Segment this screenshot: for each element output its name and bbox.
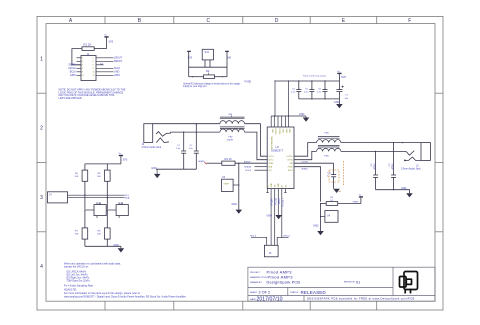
svg-text:www.analog.com/SSM2377 - Digit: www.analog.com/SSM2377 - Digital Input C… [64,295,186,298]
svg-text:DATE: DATE [250,298,256,301]
svg-text:GPIO: GPIO [70,74,76,77]
resistor R2 [204,69,215,79]
svg-text:AGND: AGND [244,161,251,164]
IC U4 [321,211,339,223]
jumper U1 [202,49,213,60]
svg-text:OUTR-: OUTR- [287,160,293,162]
svg-text:MCLK: MCLK [270,199,274,206]
ground [267,214,282,220]
svg-text:LRCLK: LRCLK [280,199,284,208]
border frame [37,16,443,310]
svg-text:SDATA: SDATA [244,166,252,169]
junction dots [298,80,325,99]
wire R4 left [321,203,327,205]
J1 left net labels [68,64,76,78]
svg-text:SCL: SCL [268,170,272,172]
svg-text:R3 1K: R3 1K [225,157,232,161]
wire SDATA [255,166,268,168]
svg-text:SJ1: SJ1 [205,50,210,54]
J1 pin numbers [82,58,95,78]
ground [299,113,309,122]
svg-text:VDD: VDD [288,129,290,134]
svg-text:LRCLK: LRCLK [283,235,291,237]
svg-text:AGND: AGND [302,168,309,171]
svg-text:01: 01 [356,280,360,284]
grid letters top [69,18,411,24]
svg-text:BCLK: BCLK [273,199,277,206]
svg-text:2: 2 [93,58,94,60]
svg-text:1000R: 1000R [227,139,234,141]
svg-text:GND: GND [277,199,281,205]
capacitor C6 [323,81,328,99]
svg-text:GND: GND [151,167,157,170]
op-amp U2 SSM2377 [267,127,294,189]
IC U6 [107,202,128,218]
svg-text:GND: GND [299,113,305,116]
pin header J5 [264,245,278,256]
svg-text:Vcc: Vcc [337,71,340,73]
wire supply rail [275,80,340,82]
U2 pin numbers bottom [267,183,287,188]
svg-text:DesignSpark PCB: DesignSpark PCB [267,281,301,285]
svg-text:PROJECT: PROJECT [250,272,261,274]
svg-text:10: 10 [93,72,95,74]
svg-text:1: 1 [82,58,83,60]
svg-text:SDA: SDA [125,197,130,200]
wire [189,51,227,76]
svg-text:7: 7 [82,68,83,70]
svg-text:DESIGNSPARK PCB available for: DESIGNSPARK PCB available for FREE at ww… [307,296,415,300]
svg-text:BCLK: BCLK [288,170,294,172]
wire to gnd [320,204,322,232]
svg-text:PVDD: PVDD [288,167,294,169]
svg-text:220pF: 220pF [390,164,392,171]
svg-text:3V3: 3V3 [123,157,128,161]
svg-text:GPIO: GPIO [114,74,120,77]
svg-text:3V3: 3V3 [108,40,113,44]
wire gnd rail [299,98,340,100]
resistor R5 [75,170,88,181]
svg-text:R1 1K: R1 1K [84,43,92,47]
svg-text:VREF: VREF [268,163,274,165]
svg-text:2: 2 [40,126,43,132]
wire header right [277,237,288,245]
ground [232,203,243,214]
power symbol VDD [104,37,108,49]
svg-text:3.5mm Audio Jack: 3.5mm Audio Jack [142,146,162,149]
svg-text:RELEASED: RELEASED [301,290,327,295]
J1 right net labels [100,57,123,78]
svg-text:Pmod AMP3: Pmod AMP3 [268,275,294,280]
ground [151,167,160,178]
junction [71,64,72,65]
svg-text:3: 3 [82,61,83,63]
svg-text:Vcc: Vcc [359,195,362,197]
svg-text:MCLK: MCLK [250,236,257,238]
svg-text:GND: GND [267,215,273,218]
svg-text:10K: 10K [97,176,101,178]
capacitor C9 [391,143,396,190]
svg-text:STATUS: STATUS [290,291,299,294]
ferrite bead FB4 [317,145,341,151]
svg-text:5: 5 [82,65,83,67]
resistor R6 [97,170,110,181]
net labels vertical [270,199,285,208]
IC U3 [222,176,239,191]
wire right channel [171,131,220,133]
title block [248,267,435,301]
svg-text:5V0: 5V0 [341,75,346,79]
svg-text:6: 6 [93,65,94,67]
svg-text:4: 4 [40,264,43,270]
svg-text:SSM2377: SSM2377 [271,148,284,152]
wire FB4 out [341,150,406,152]
ferrite bead FB2 [220,127,245,132]
svg-text:Fs = Audio Sampling Rate: Fs = Audio Sampling Rate [64,285,94,288]
svg-text:DRAWING TITLE: DRAWING TITLE [250,276,268,279]
wire BCLK [255,169,268,171]
J1 left pins [77,58,82,76]
svg-text:Place 0.1uF close to pins: Place 0.1uF close to pins [303,75,326,78]
IC U5 [85,202,106,218]
junction dots [183,123,197,133]
wire analog gnd rail [156,168,196,170]
svg-text:PVDD: PVDD [274,129,276,135]
svg-text:OUTR: OUTR [302,161,309,163]
ferrite bead FB1 [220,117,245,124]
resistor R7 [75,228,88,239]
connector J1 [81,52,96,81]
svg-text:3: 3 [40,195,43,201]
ground [401,187,413,197]
svg-text:THERMAL PAD: THERMAL PAD [270,136,273,150]
svg-text:C: C [206,18,210,24]
svg-text:LIMIT ARE APPLIED.: LIMIT ARE APPLIED. [59,97,83,100]
svg-text:220pF: 220pF [372,164,374,171]
svg-text:1: 1 [40,57,43,63]
capacitor C4 [296,81,301,99]
wire left channel [153,123,220,125]
ferrite bead FB3 [317,137,341,143]
svg-text:VREF: VREF [224,184,230,186]
svg-text:11: 11 [82,75,84,77]
svg-text:2017/07/10: 2017/07/10 [257,296,283,302]
power flag 5V0 [225,50,229,52]
svg-text:Unless R2 selected voltage is: Unless R2 selected voltage is limited di… [183,82,241,85]
svg-text:Vcc: Vcc [119,153,122,155]
svg-text:AGND: AGND [199,160,206,163]
svg-text:GND: GND [114,244,120,247]
U2 pin names right [287,156,294,172]
svg-text:GND: GND [313,225,319,228]
wire R4 right to flag [338,203,361,205]
audio jack J3 [404,143,430,161]
power symbol 5V0 [337,73,341,81]
svg-text:DRAWN BY: DRAWN BY [250,281,262,284]
wire AGND stub [207,162,222,164]
wire output gnd rail [376,190,410,194]
svg-text:10K: 10K [97,234,101,236]
wire R3 to U2 [235,162,267,164]
wire OUT top [267,157,294,159]
U2 top pins [271,81,306,127]
wire OUTR labels [294,162,334,164]
svg-text:10K: 10K [75,234,79,236]
capacitor C8 [373,151,378,189]
wire FB3 out [341,142,421,144]
note text top-left [59,89,126,100]
svg-text:GND: GND [282,129,284,134]
ground [334,101,343,108]
svg-text:R2: R2 [206,69,210,73]
svg-text:F: F [408,18,411,24]
audio jack J2 [144,124,171,143]
wire down to U3 [238,163,240,209]
svg-text:PVDD: PVDD [245,81,252,84]
wires through resistors [85,181,107,209]
resistor R4 [326,197,338,205]
svg-text:10K: 10K [75,176,79,178]
svg-text:TDM Data Out 32xFs: TDM Data Out 32xFs [66,280,90,283]
capacitor C2 [194,124,199,170]
svg-text:supply to your logic pin.: supply to your logic pin. [183,85,207,88]
svg-text:VREF: VREF [353,201,359,203]
svg-text:4: 4 [93,61,94,63]
svg-text:8: 8 [93,68,94,70]
U2 pin names top [271,129,290,135]
variant outline dashed [329,161,344,186]
svg-text:GND: GND [285,129,287,134]
note text gain select [183,82,241,88]
wire header left [251,237,267,245]
svg-text:PVDD: PVDD [278,129,280,135]
resistor R8 [97,228,110,239]
svg-text:GND: GND [334,101,340,104]
resistor R1 [82,43,94,51]
connector J4 [48,192,125,203]
wire FB1 out [245,124,268,157]
svg-text:REVISION: REVISION [344,282,355,284]
svg-text:3V3: 3V3 [188,56,193,60]
svg-text:J1: J1 [87,52,90,56]
capacitor C1 [181,132,186,169]
svg-text:BCLK: BCLK [246,170,252,172]
svg-text:OUTL-: OUTL- [268,160,274,162]
svg-text:3.5mm Audio Jack: 3.5mm Audio Jack [401,167,421,170]
capacitor C5 [309,81,314,99]
svg-text:RROUT: RROUT [114,60,123,63]
ground [313,225,324,236]
svg-text:12: 12 [93,75,95,77]
ground [333,189,340,193]
power flag 3V3 [187,50,191,52]
resistor R3 [222,157,235,166]
wire [72,49,82,65]
grid numbers left [40,57,43,271]
wires to bottom rail [85,210,121,248]
J1 right pin wires [96,58,114,76]
junction [274,80,289,116]
wire FB2 out [245,132,268,160]
capacitor C7 polarized [336,81,343,104]
ground [114,244,125,253]
wire [94,48,106,50]
svg-text:2 OF 2: 2 OF 2 [259,291,271,295]
svg-text:GND: GND [278,183,280,188]
U2 pin names left [268,156,275,172]
svg-text:GND: GND [271,183,273,188]
wire top rail [85,164,121,170]
power symbol 3V3 [119,156,123,164]
svg-text:D: D [275,18,279,24]
svg-text:GND: GND [232,203,238,206]
svg-text:Vcc: Vcc [104,34,107,36]
svg-text:SHEET: SHEET [250,292,258,294]
svg-text:sample the LRCLK at:: sample the LRCLK at: [64,266,89,269]
svg-text:GND: GND [401,187,407,190]
DesignSpark logo [400,272,418,293]
svg-text:VDD: VDD [271,129,273,134]
svg-text:9: 9 [82,72,83,74]
capacitor C10 not fitted [331,163,336,189]
